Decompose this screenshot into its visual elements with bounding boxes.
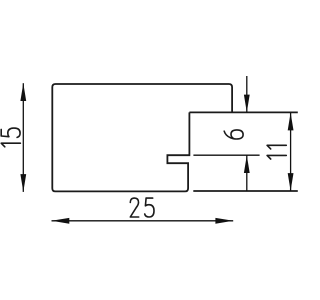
dimension 15 line: [22, 83, 24, 192]
dimension 6 lower leader: [246, 155, 248, 191]
dimension 11 arrow up: [288, 113, 294, 131]
profile part A outline (25x15 body with groove): [52, 84, 232, 191]
dimension 11 text: [267, 145, 286, 159]
dimension 6 arrow down: [244, 95, 250, 113]
dimension 11 line: [290, 113, 292, 191]
part B bottom edge: [193, 190, 297, 192]
dimension 6 upper leader: [246, 76, 248, 112]
part B top edge: [189, 111, 297, 113]
dimension 15 arrow up: [20, 83, 26, 101]
dimension 11 arrow down: [288, 173, 294, 191]
dimension 6 extension line: [193, 154, 259, 156]
dimension 25 arrow right: [215, 218, 233, 224]
dimension 6 text: [224, 130, 243, 139]
dimension 15 arrow down: [20, 174, 26, 192]
dimension 25 arrow left: [52, 218, 70, 224]
dimension 6 arrow up: [244, 155, 250, 173]
dimension 15 text: [1, 128, 20, 147]
dimension 25 text: [130, 198, 154, 217]
dimension 25 line: [52, 220, 234, 222]
